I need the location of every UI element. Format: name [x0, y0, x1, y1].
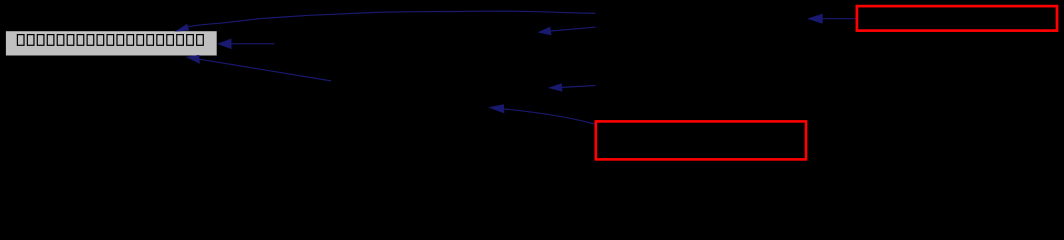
arrowhead A4 — [537, 27, 551, 36]
edge S7 from top right red box — [823, 18, 856, 20]
edge S5 short lower middle — [562, 86, 595, 88]
edge S1 long top curve — [188, 11, 595, 27]
arrowhead A7 — [807, 14, 823, 24]
edge S3 diagonal into gray box bottom — [200, 59, 332, 81]
node current-function (gray box) — [6, 31, 217, 55]
node caller-2 (bottom red box) — [596, 121, 806, 159]
arrowhead A2 — [217, 39, 231, 50]
tofu glyph row (19 missing-glyph boxes) — [17, 35, 203, 46]
arrowhead A6 — [488, 104, 504, 113]
edge S4 short upper middle — [551, 27, 596, 31]
node caller-1 (top right red box) — [857, 6, 1057, 31]
arrowhead A1 — [175, 24, 190, 32]
arrowhead A3 — [186, 55, 200, 64]
edge S2 horizontal into gray box — [231, 43, 275, 45]
edge S6 curve from bottom red box — [504, 109, 594, 124]
arrowhead A5 — [548, 83, 563, 91]
